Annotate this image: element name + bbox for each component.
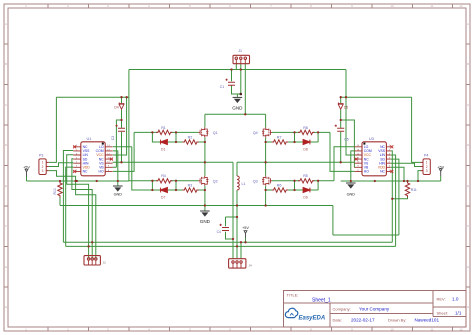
svg-text:C5: C5 [344,138,348,142]
svg-text:C4: C4 [217,230,221,234]
svg-text:+5V: +5V [23,166,30,170]
svg-text:Drawn By:: Drawn By: [388,318,406,323]
svg-text:Date:: Date: [333,318,343,323]
svg-text:Q2: Q2 [213,179,218,183]
svg-text:TITLE:: TITLE: [287,292,299,297]
svg-text:D7: D7 [161,195,165,199]
svg-text:D4: D4 [114,105,118,109]
svg-text:R1: R1 [161,126,166,130]
svg-text:R8: R8 [303,126,308,130]
svg-text:Q4: Q4 [253,131,258,135]
svg-text:D6: D6 [303,195,307,199]
svg-text:D5: D5 [344,105,348,109]
svg-text:B: B [5,62,7,66]
svg-text:Company:: Company: [333,307,351,312]
svg-text:U3: U3 [369,137,374,141]
svg-text:B: B [467,62,469,66]
svg-text:Naweed101: Naweed101 [415,318,440,323]
svg-text:Q3: Q3 [253,179,258,183]
svg-text:GND: GND [200,219,211,224]
svg-text:A: A [5,22,7,26]
svg-text:U1: U1 [87,137,92,141]
svg-text:R7: R7 [277,136,282,140]
svg-text:+5V: +5V [437,165,444,169]
svg-text:HO: HO [364,170,369,174]
svg-text:12: 12 [459,327,463,331]
svg-text:NC: NC [380,170,385,174]
svg-text:EasyEDA: EasyEDA [299,315,326,321]
svg-text:Your Company: Your Company [359,307,390,312]
svg-text:Sheet_1: Sheet_1 [312,298,331,304]
svg-text:L1: L1 [242,182,246,186]
svg-text:C1: C1 [220,85,224,89]
svg-text:NC: NC [83,170,88,174]
svg-text:Sheet:: Sheet: [437,311,449,316]
svg-text:12: 12 [459,4,463,8]
svg-text:Q1: Q1 [213,131,218,135]
svg-text:E: E [5,184,7,188]
svg-text:P3: P3 [39,154,43,158]
svg-text:J4: J4 [249,264,253,268]
svg-text:J1: J1 [238,49,242,53]
svg-text:F: F [467,224,469,228]
svg-text:E: E [467,184,469,188]
svg-text:REV:: REV: [437,297,446,302]
svg-text:F: F [5,224,7,228]
svg-text:1/1: 1/1 [455,311,462,316]
svg-text:R4: R4 [161,174,166,178]
svg-text:10: 10 [390,4,394,8]
svg-text:GND: GND [114,193,123,197]
svg-text:R10: R10 [53,188,57,194]
svg-text:11: 11 [430,4,433,8]
svg-text:H: H [5,305,7,309]
svg-text:3: 3 [426,169,428,173]
svg-text:2022-02-17: 2022-02-17 [351,318,375,323]
svg-text:1.0: 1.0 [452,297,459,302]
svg-text:GND: GND [232,106,243,111]
svg-text:R6: R6 [277,184,282,188]
svg-text:3: 3 [42,169,44,173]
svg-text:11: 11 [430,327,433,331]
svg-text:HO: HO [99,170,104,174]
svg-text:10: 10 [390,327,394,331]
svg-text:R2: R2 [188,136,193,140]
svg-text:R3: R3 [188,184,193,188]
svg-text:+5V: +5V [242,226,249,230]
svg-text:J2: J2 [103,260,107,264]
svg-text:R11: R11 [411,188,417,192]
svg-text:P4: P4 [424,154,428,158]
svg-text:C3: C3 [111,136,115,140]
svg-text:D1: D1 [161,148,165,152]
svg-text:GND: GND [347,193,356,197]
svg-text:A: A [467,22,469,26]
svg-text:H: H [467,305,469,309]
svg-text:R5: R5 [303,174,308,178]
svg-text:D8: D8 [303,148,307,152]
